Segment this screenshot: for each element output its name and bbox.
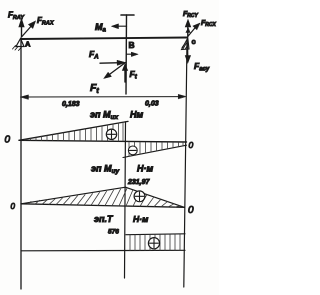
row3 plus sign [148, 238, 159, 249]
svg-text:A: A [25, 40, 31, 49]
left extension line (A down) [20, 39, 22, 289]
svg-text:0,183: 0,183 [62, 101, 80, 108]
svg-text:231,97: 231,97 [127, 179, 151, 186]
svg-text:FRCY: FRCY [183, 11, 199, 19]
svg-text:0: 0 [5, 135, 11, 146]
reaction arrow FRCx (diagonal at C) [188, 23, 200, 37]
svg-text:эп.Т: эп.Т [94, 214, 114, 224]
diagonal arrow Ft (down-left from B) [104, 63, 126, 79]
beam AC [21, 38, 187, 40]
svg-text:В: В [129, 40, 135, 50]
node B vertical line (top) [125, 15, 128, 94]
support A triangle [13, 39, 25, 51]
row1 top slope (A to B) [19, 121, 128, 140]
svg-text:FRCX: FRCX [201, 20, 217, 28]
svg-text:0: 0 [189, 140, 194, 150]
reaction arrow FRAx (diagonal at A) [22, 21, 36, 37]
row2 plus sign [134, 191, 145, 202]
svg-text:576: 576 [108, 229, 119, 236]
reaction arrow FRAy (up at A) [19, 19, 24, 38]
svg-text:0,03: 0,03 [145, 101, 159, 108]
svg-text:0: 0 [11, 202, 16, 211]
small arrow Ftx (right from B line) [127, 52, 139, 56]
force arrow FaCy (down at C) [185, 42, 190, 63]
row2 right slope [126, 187, 185, 207]
row2 My diagram: baseline [21, 204, 184, 208]
svg-text:Н·м: Н·м [133, 214, 149, 224]
row1 negative wedge bottom edge (B to C) [123, 145, 187, 157]
support C triangle [182, 38, 190, 50]
svg-text:0: 0 [188, 205, 194, 216]
row3 baseline (bottom) [21, 249, 185, 252]
row2 left slope [21, 187, 126, 204]
row3 T diagram: top edge [126, 233, 185, 236]
row1 hatch (vertical) [25, 122, 123, 141]
svg-text:c: c [192, 37, 196, 46]
row2 hatch (diagonal) [28, 188, 180, 207]
row1 Mx diagram: baseline [19, 140, 187, 142]
right extension line (C down) [184, 40, 187, 287]
B vertical through diagrams [125, 122, 126, 278]
T-bar at top of B line [121, 14, 134, 16]
row1 negative hatch [129, 142, 183, 156]
moment arrow Ma (pointing left) [112, 24, 127, 29]
reaction arrow FRCy (up at C) [185, 20, 191, 37]
row3 hatch (vertical) [130, 234, 180, 251]
row1 minus sign [128, 146, 137, 155]
force arrow FA (right, into B line) [100, 60, 126, 65]
dimension line [20, 94, 186, 99]
up arrowhead on B line (Ft vertical component) [122, 64, 127, 71]
row1 plus sign [106, 129, 116, 139]
